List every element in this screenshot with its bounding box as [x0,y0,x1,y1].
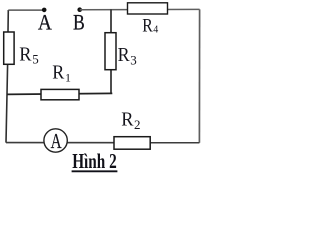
resistor R4 value label [142,15,158,36]
svg-text:R: R [121,108,134,130]
node A (terminal dot) [42,8,47,13]
svg-text:A: A [38,10,52,35]
svg-text:R: R [142,15,153,36]
resistor R1 (box) [41,89,79,99]
svg-text:R: R [52,61,65,83]
wire: right rail (top-right corner to bottom-right corner) [198,9,200,142]
resistor R2 (box) [114,137,150,150]
ammeter U1 (circle symbol) [44,129,67,152]
resistor R5 value label [19,43,39,66]
svg-text:Hình 2: Hình 2 [72,149,117,173]
resistor R1 value label [52,61,71,84]
resistor R3 (box) [105,33,116,70]
svg-text:3: 3 [130,52,137,67]
svg-text:4: 4 [153,25,158,36]
node B (terminal dot) [77,7,82,12]
svg-text:1: 1 [65,70,71,84]
caption: Hinh 2 (underlined) [72,149,118,173]
wire: middle horizontal wire from left rail to R3 branch (through R1) [7,93,112,94]
resistor R4 (box) [128,3,168,14]
wire: top segment from left corner to node A [8,9,44,11]
svg-text:B: B [73,9,85,34]
resistor R2 value label [121,108,140,132]
svg-text:2: 2 [134,117,141,132]
wire: left rail (top-left corner down to bottom-left corner, passes under R5) [6,10,8,143]
wire: from node B right to top-right corner [80,8,200,10]
wire: bottom wire from bottom-left to bottom-right corner (through ammeter and R2) [6,142,199,144]
svg-text:R: R [19,43,32,65]
wire: vertical branch from top wire junction down to middle wire (through R3) [110,9,112,93]
svg-text:A: A [51,129,63,153]
resistor R3 value label [118,44,137,67]
resistor R5 (box) [4,32,14,64]
svg-text:R: R [118,44,131,66]
svg-text:5: 5 [32,52,39,67]
